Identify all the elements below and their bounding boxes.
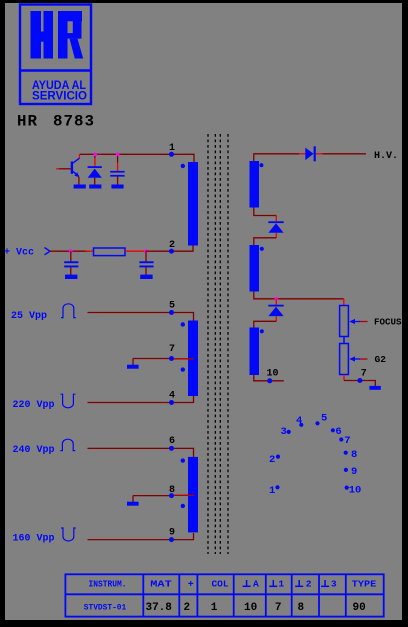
wire pin7 ground drop	[132, 359, 134, 366]
winding T3	[250, 328, 260, 376]
svg-text:FOCUS: FOCUS	[374, 317, 402, 328]
wire red below D3	[275, 316, 277, 321]
wire red after HV diode	[316, 153, 323, 155]
pinout diagram pin 4	[296, 415, 303, 427]
pinout diagram pin 7	[339, 435, 350, 447]
winding S2	[188, 457, 198, 533]
pinout diagram pin 6	[331, 426, 342, 438]
svg-text:+: +	[188, 580, 194, 591]
node junction D3 magenta	[275, 297, 279, 301]
pinout diagram pin 3	[281, 426, 291, 438]
svg-text:1: 1	[269, 485, 275, 497]
pinout diagram pin 9	[344, 466, 358, 478]
wire T1 bottom to D2	[254, 208, 276, 216]
ground under C1	[111, 185, 123, 189]
wire pin6	[88, 448, 194, 457]
wire pin5	[88, 313, 194, 321]
svg-text:COL: COL	[212, 579, 229, 590]
winding T1 HV top	[250, 161, 260, 208]
svg-text:2: 2	[269, 454, 275, 466]
svg-text:HR 8783: HR 8783	[17, 113, 95, 131]
logo HR box border	[20, 5, 91, 105]
wire G2 to ground	[344, 381, 375, 387]
svg-text:6: 6	[169, 436, 175, 447]
pinout diagram pin 10	[345, 484, 362, 496]
logo divider line	[20, 69, 91, 71]
svg-text:10: 10	[244, 602, 257, 614]
wire D3 to T3 top	[254, 321, 276, 327]
wire red above D2	[275, 216, 277, 222]
wire between pots	[343, 337, 345, 344]
wire T1 top to HV diode	[254, 154, 299, 162]
svg-text:2: 2	[169, 240, 175, 251]
transformer core dashed lines	[208, 134, 228, 554]
wire red below G2 pot	[343, 375, 345, 381]
waveform negative pulse 160Vpp	[61, 528, 76, 541]
svg-text:5: 5	[321, 413, 327, 425]
wire red above D3	[275, 299, 277, 305]
wire pin9	[88, 533, 194, 540]
node pin4 dot	[169, 400, 174, 405]
wire red after resistor	[125, 250, 146, 252]
ground pin7	[127, 365, 139, 369]
logo HR letter H	[31, 11, 54, 59]
svg-text:INSTRUM.: INSTRUM.	[89, 579, 127, 590]
svg-text:4: 4	[169, 391, 175, 402]
ground under Q1	[74, 185, 86, 189]
svg-text:220 Vpp: 220 Vpp	[13, 400, 55, 411]
node pin9 dot	[169, 537, 174, 542]
svg-text:A: A	[253, 579, 259, 590]
svg-text:SERVICIO: SERVICIO	[32, 89, 87, 103]
svg-text:90: 90	[352, 602, 365, 614]
wire Q1 base red tick	[56, 168, 59, 170]
wire pin8 tap red	[172, 494, 195, 496]
svg-text:8: 8	[169, 485, 175, 496]
wire red below D2	[275, 233, 277, 238]
winding T3 phase dot	[260, 329, 264, 333]
ground under D1	[89, 185, 101, 189]
node pin10 dot	[267, 378, 272, 383]
svg-text:6: 6	[335, 426, 341, 438]
resistor R1	[94, 248, 126, 256]
winding T1 phase dot	[259, 163, 263, 167]
node pin7 right dot	[357, 378, 362, 383]
svg-text:1: 1	[169, 143, 175, 154]
svg-text:8: 8	[351, 449, 357, 461]
svg-text:7: 7	[361, 368, 367, 379]
svg-text:160 Vpp: 160 Vpp	[13, 534, 55, 545]
winding P1 phase dot	[181, 164, 185, 168]
svg-text:1: 1	[278, 579, 284, 590]
wire D1 to ground	[94, 178, 96, 185]
wire red down to FOCUS pot	[343, 299, 345, 306]
wire C1 to ground	[117, 176, 119, 184]
waveform negative pulse 220Vpp	[61, 394, 76, 408]
wire pin8 tap	[133, 495, 172, 497]
ground bottom right	[369, 386, 380, 390]
diode D2	[268, 221, 283, 232]
transistor Q1 emitter arrowhead	[74, 172, 79, 177]
ground pin8	[127, 502, 139, 506]
winding S2 phase dot top	[181, 458, 185, 462]
node junction C3 magenta	[144, 249, 148, 253]
svg-text:3: 3	[281, 426, 287, 438]
svg-text:1: 1	[211, 602, 218, 614]
node pin6 dot	[169, 446, 174, 451]
svg-text:H.V.: H.V.	[374, 151, 398, 162]
winding S1 phase dot top	[181, 322, 185, 326]
wire collector stub red	[78, 154, 80, 158]
node junction C1 magenta	[116, 153, 120, 157]
wire to HV label	[323, 153, 367, 155]
pinout diagram pin 2	[269, 454, 280, 466]
waveform positive pulse 25Vpp	[61, 304, 76, 318]
pinout diagram pin 1	[269, 485, 280, 497]
table header ground 1	[269, 579, 284, 590]
svg-text:MAT: MAT	[150, 579, 172, 590]
node pin5 dot	[169, 310, 174, 315]
wire Vcc rail	[50, 250, 89, 252]
svg-text:9: 9	[351, 466, 357, 478]
diode D4 HV rectifier	[305, 146, 316, 161]
winding T2	[250, 245, 260, 292]
wire T3 bottom to pin10	[254, 375, 284, 381]
svg-text:10: 10	[349, 484, 362, 496]
winding S1	[188, 321, 198, 397]
node pin8 dot	[169, 493, 174, 498]
wire stub above D1 red	[94, 154, 96, 158]
node pin7 dot	[169, 356, 174, 361]
wire Q1 base	[59, 168, 71, 170]
logo HR letter R	[58, 11, 83, 59]
FOCUS wiper arrow	[349, 319, 367, 324]
wire red before HV diode	[299, 153, 306, 155]
wire rail to pin2 corner	[146, 246, 193, 252]
svg-text:8: 8	[297, 602, 304, 614]
winding T2 phase dot	[260, 247, 264, 251]
ground under C2	[65, 275, 77, 279]
ground under C3	[140, 275, 152, 279]
potentiometer G2	[340, 344, 349, 375]
svg-text:7: 7	[169, 344, 175, 355]
winding S1 phase dot mid	[181, 367, 185, 371]
wire red before resistor	[86, 250, 94, 252]
svg-text:STVDST-01: STVDST-01	[84, 603, 127, 613]
svg-text:3: 3	[331, 579, 337, 590]
node junction D1 magenta	[94, 153, 98, 157]
capacitor C3	[139, 251, 153, 275]
table header ground A	[243, 579, 259, 590]
diode D3	[268, 305, 283, 316]
svg-text:25 Vpp: 25 Vpp	[11, 311, 47, 322]
winding S2 phase dot mid	[181, 504, 185, 508]
transistor Q1	[72, 158, 80, 176]
svg-text:5: 5	[169, 301, 175, 312]
node pin1 dot	[169, 152, 174, 157]
wire T2 bottom rail	[254, 292, 344, 299]
table header ground 3	[321, 579, 337, 590]
wire pin8 ground drop	[132, 496, 134, 502]
pinout diagram pin 8	[344, 449, 358, 461]
svg-text:10: 10	[267, 369, 279, 380]
wire Q1 emitter to ground	[78, 177, 80, 185]
wire pin7 tap	[133, 358, 172, 360]
svg-text:G2: G2	[375, 354, 387, 365]
svg-text:7: 7	[344, 435, 350, 447]
capacitor C2	[64, 251, 78, 275]
svg-text:2: 2	[306, 579, 312, 590]
svg-text:240 Vpp: 240 Vpp	[13, 445, 55, 456]
node junction C2 magenta	[69, 249, 73, 253]
svg-text:TYPE: TYPE	[352, 579, 377, 590]
winding P1 primary	[188, 162, 198, 246]
potentiometer FOCUS	[340, 306, 349, 337]
data table grid	[65, 574, 383, 616]
svg-text:9: 9	[169, 528, 175, 539]
capacitor C1	[110, 171, 124, 177]
wire top rail collector to pin1 corner	[80, 154, 194, 162]
waveform positive pulse 240Vpp	[60, 439, 75, 450]
svg-text:37.8: 37.8	[145, 602, 172, 614]
diode D1	[88, 166, 102, 178]
G2 wiper arrow	[349, 356, 367, 361]
wire pin4	[88, 396, 194, 403]
node pin2 dot	[169, 249, 174, 254]
table header ground 2	[295, 579, 312, 590]
pinout diagram pin 5	[315, 413, 327, 426]
wire pin7 tap red	[172, 358, 194, 360]
svg-text:+ Vcc: + Vcc	[4, 248, 34, 259]
Vcc input arrow	[45, 248, 51, 255]
wire D2 to T2 top	[254, 238, 276, 245]
svg-text:7: 7	[275, 602, 282, 614]
wire stub above C1 red	[117, 154, 119, 162]
svg-text:2: 2	[183, 602, 190, 614]
